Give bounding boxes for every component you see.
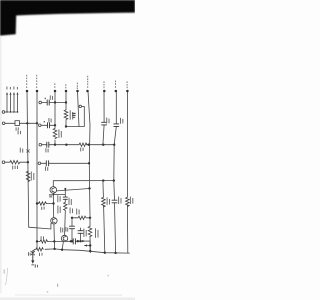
label terminal 7 bbox=[104, 81, 105, 83]
capacitor C3 plates (on V7) bbox=[102, 122, 107, 125]
junction node (90,217.8) bbox=[89, 217, 91, 219]
junction node (104.8,252.7) bbox=[104, 252, 106, 254]
left paper edge shadow bbox=[0, 36, 2, 293]
terminal pad 6 bbox=[86, 90, 89, 93]
wire bus line V7 bbox=[103, 91, 105, 253]
resistor R10 zigzag (on V6) bbox=[88, 226, 92, 236]
junction node (17.5,112) bbox=[17, 111, 18, 112]
junction node (66,102.5) bbox=[65, 101, 67, 103]
junction node (54.3,241.4) bbox=[53, 240, 55, 242]
wire rail D (C6 line y=163.3) bbox=[41, 162, 89, 164]
label terminal 9 bbox=[127, 81, 128, 83]
label R6 value bbox=[69, 198, 70, 205]
capacitor C8 drop line bbox=[80, 228, 82, 241]
transistor TR3 bbox=[61, 235, 67, 241]
junction node (72,217.8) bbox=[71, 217, 73, 219]
label block right of R1 bbox=[72, 113, 76, 114]
junction node (90.2,250.9) bbox=[89, 250, 91, 252]
terminal circle RV1 line bbox=[2, 161, 5, 164]
terminal pad 1 bbox=[26, 90, 29, 93]
wire bus line V5 bbox=[78, 91, 80, 127]
resistor R5 zigzag bbox=[38, 202, 46, 205]
capacitor C1 plates bbox=[47, 100, 49, 105]
terminal pad 2 bbox=[36, 90, 39, 93]
terminal circle fuse line bbox=[2, 122, 5, 125]
resistor R3 zigzag bbox=[79, 143, 87, 146]
junction node (66,126.5) bbox=[65, 125, 67, 127]
capacitor C4 plates (on V8) bbox=[114, 124, 119, 127]
connector pin arrowheads bbox=[6, 92, 19, 95]
wire TR3 emitter down to bus bbox=[62, 241, 63, 249]
speck lower center bbox=[47, 291, 49, 293]
label terminal 1 bbox=[26, 75, 27, 77]
bottom scan strip bbox=[0, 297, 135, 300]
resistor R6 zigzag bbox=[64, 199, 67, 210]
label C3 value bbox=[106, 118, 107, 124]
label RV1 value bbox=[12, 166, 13, 170]
label C7 value bbox=[70, 208, 71, 214]
wire TR1 collector rail y=180.6 bbox=[53, 181, 114, 187]
junction node (115.6,252.9) bbox=[114, 252, 116, 254]
label C6 value bbox=[45, 167, 46, 171]
junction node (113.8,180.6) bbox=[113, 179, 115, 181]
junction node (65.3,188.9) bbox=[64, 188, 66, 190]
label R3 value bbox=[80, 148, 81, 152]
junction node (14,112) bbox=[13, 111, 14, 112]
terminal circle C6 line bbox=[38, 162, 41, 165]
label terminal 6 bbox=[87, 76, 88, 78]
wire bus line V8 bbox=[114, 91, 117, 253]
wire TR2 emitter down bbox=[53, 224, 56, 249]
label R7 value bbox=[41, 236, 42, 240]
capacitor C11 plates on branch bbox=[63, 197, 67, 199]
junction node (66.4,144.7) bbox=[65, 144, 67, 146]
resistor R2 zigzag (on V1) bbox=[26, 171, 30, 181]
terminal pad 7 bbox=[103, 90, 106, 93]
connector CN1 pin 4 bbox=[17, 95, 19, 112]
capacitor C6 plates bbox=[46, 161, 48, 166]
rotated tiny label smudges bbox=[6, 75, 133, 268]
scanner black header bbox=[0, 0, 135, 36]
capacitor C5 plates bbox=[47, 142, 49, 147]
wire input line with fuse F1 bbox=[5, 122, 37, 124]
wire bus line V6 bbox=[88, 91, 90, 253]
label R4 value bbox=[58, 130, 59, 139]
label terminal 5 bbox=[77, 83, 78, 85]
capacitor C9 plates (on V8) bbox=[112, 200, 117, 203]
resistor R1 zigzag (on V4) bbox=[64, 110, 68, 120]
wire arrow stub at V6 bottom bbox=[85, 245, 91, 247]
junction node (27.3,123.3) bbox=[26, 122, 28, 124]
connector CN1 common bus wire bbox=[5, 111, 18, 113]
junction node (37,203.5) bbox=[36, 202, 38, 204]
terminal circle bus left bbox=[2, 111, 5, 114]
junction node (55,144.7) bbox=[54, 144, 56, 146]
resistor R11 zigzag (on V7) bbox=[102, 197, 106, 207]
resistor RV1 zigzag bbox=[10, 161, 20, 164]
earth bar bbox=[31, 263, 34, 266]
wire bus line V4 bbox=[65, 91, 67, 127]
junction node (77.8,241.2) bbox=[77, 240, 79, 242]
transistor TR2 bbox=[51, 218, 57, 224]
label TR2 type bbox=[57, 206, 58, 214]
wire TR1 base rail y=188.5 bbox=[56, 189, 89, 191]
junction node (88.7,144.7) bbox=[88, 144, 90, 146]
junction node (55,125.3) bbox=[54, 124, 56, 126]
speck center bottom bbox=[57, 284, 58, 287]
wire R9 rail y=217.8 bbox=[72, 217, 90, 219]
label terminal 8 bbox=[115, 81, 116, 83]
label R12 value bbox=[130, 197, 131, 204]
wire bus line V3 bbox=[54, 91, 56, 145]
capacitor C2 plates bbox=[48, 123, 50, 128]
label fuse F1 bbox=[16, 127, 17, 130]
junction node (72,241.3) bbox=[71, 240, 73, 242]
junction node (54.6,248.9) bbox=[53, 248, 55, 250]
junction node (10.5,112) bbox=[10, 111, 11, 112]
open terminal circle of stub bbox=[79, 105, 81, 107]
wire TR1 emitter down to TR2 bbox=[52, 193, 54, 217]
emitter arrowhead on rail bbox=[82, 240, 85, 242]
board terminal dots row y=91 bbox=[26, 90, 129, 93]
resistor R4 zigzag (on V3) bbox=[53, 128, 57, 138]
connector CN1 pin 2 bbox=[10, 95, 12, 112]
capacitor C10 plates bbox=[73, 239, 75, 244]
wire R7 rail y=241.4 bbox=[37, 240, 63, 242]
junction node (70.9,241.3) bbox=[70, 240, 72, 242]
label TR1 blob bbox=[49, 194, 53, 195]
label R11 value bbox=[107, 197, 108, 205]
label TR3 type bbox=[60, 227, 61, 232]
label near tick on V1 bbox=[20, 148, 21, 153]
wire rail B (C2 line y=125.3) bbox=[41, 124, 55, 126]
junction node (89,163.3) bbox=[88, 162, 90, 164]
label C5 value bbox=[45, 148, 46, 152]
label terminal 4 bbox=[65, 84, 66, 86]
label C4 value bbox=[120, 118, 121, 124]
label upper V1 bbox=[18, 130, 19, 134]
junction node (89.5,188.4) bbox=[88, 187, 90, 189]
junction node (90.2,245.5) bbox=[89, 244, 91, 246]
faint page-bottom artifacts bbox=[4, 268, 122, 295]
earth arrowhead bbox=[31, 260, 34, 263]
terminal circle C2 line bbox=[39, 124, 42, 127]
label TR1 type right bbox=[57, 195, 58, 202]
label C8 value bbox=[83, 229, 84, 237]
junction node (37,241.4) bbox=[36, 240, 38, 242]
label connector pins bbox=[6, 87, 7, 90]
terminal pad 3 bbox=[54, 90, 57, 93]
junction dots bbox=[6, 101, 117, 254]
wire X1 step to bus bbox=[33, 249, 36, 251]
open circle terminals bbox=[2, 101, 41, 164]
capacitor C7 drop line bbox=[71, 218, 73, 242]
resistor R9 zigzag bbox=[78, 216, 86, 219]
label R9 value bbox=[76, 209, 77, 215]
connector CN1 pin 1 bbox=[6, 95, 8, 112]
terminal pad 9 bbox=[126, 90, 128, 93]
wire R5 rail y=203.5 bbox=[37, 203, 54, 205]
junction node (53.4,194.5) bbox=[53, 194, 55, 196]
terminal circle C5 line bbox=[39, 143, 42, 146]
wire bus line V9 bbox=[126, 91, 128, 253]
junction node (103.3,144.7) bbox=[102, 144, 104, 146]
wire bus line V1 bbox=[27, 91, 29, 227]
resistor R8 zigzag bbox=[36, 248, 44, 251]
capacitor C7 plates bbox=[70, 226, 75, 229]
wire TR3 right rail y=241.4 with C10 bbox=[66, 241, 90, 251]
junction node (27.9,162.2) bbox=[27, 161, 29, 163]
label C9 value bbox=[118, 197, 119, 204]
label terminal 3 bbox=[54, 83, 55, 85]
arrowhead pointing left bbox=[84, 244, 87, 246]
label R2 value bbox=[31, 172, 32, 181]
tick on V1 at 151 bbox=[26, 150, 29, 153]
wire branch to R6 bbox=[53, 189, 65, 197]
tiny text bottom left bbox=[4, 269, 5, 273]
label R5 value bbox=[41, 207, 42, 210]
capacitor C8 plates bbox=[78, 231, 83, 234]
wire earth drop bbox=[32, 256, 34, 261]
terminal pad 8 bbox=[115, 90, 118, 93]
junction node (7,112) bbox=[6, 111, 7, 112]
faint paper crease line bbox=[15, 294, 122, 296]
transistor TR1 bbox=[50, 187, 57, 194]
junction node (62.1,249.7) bbox=[61, 249, 63, 251]
wire TR2 base line from V1 corner bbox=[29, 223, 52, 229]
junction node (80.5,241.2) bbox=[79, 240, 81, 242]
paper background bbox=[0, 0, 135, 300]
label C1 plus value bbox=[45, 98, 46, 99]
crystal mic X1 symbol bbox=[31, 251, 35, 256]
label below earth arrow bbox=[35, 264, 36, 267]
label C2 value bbox=[44, 121, 45, 122]
label R1 value bbox=[70, 110, 71, 120]
terminal pad 5 bbox=[76, 90, 79, 93]
resistor R12 zigzag (on V9) bbox=[126, 197, 130, 206]
terminal circle C1 line bbox=[39, 101, 42, 104]
wire rail C (C5 line y=144.7) bbox=[42, 144, 115, 146]
junction node (103.3,180.6) bbox=[102, 179, 104, 181]
label R8 value bbox=[39, 253, 40, 256]
wire bus line V2 bbox=[36, 91, 38, 249]
wire stub with terminal (rectangle loop to R1 bottom) bbox=[66, 106, 84, 126]
label R10 value bbox=[95, 228, 96, 238]
label mic X1 bbox=[28, 252, 29, 256]
ground bus wire bbox=[45, 249, 129, 253]
label terminal 2 bbox=[36, 75, 37, 77]
junction node (55,102.5) bbox=[54, 101, 56, 103]
junction node (53.5,203.5) bbox=[52, 202, 54, 204]
junction node (37,123.3) bbox=[36, 122, 38, 124]
wire rail A (C1 line y=102.5) bbox=[42, 102, 67, 104]
fold mark bottom left bbox=[6, 268, 8, 285]
wire R6 to TR3 collector bbox=[64, 211, 67, 236]
resistor R7 zigzag bbox=[40, 240, 48, 243]
junction node (114.2,144.7) bbox=[113, 144, 115, 146]
terminal pad 4 bbox=[65, 90, 68, 93]
connector CN1 pin 3 bbox=[13, 95, 15, 112]
fuse F1 body bbox=[15, 121, 20, 126]
wire RV1 input line y=162.2 bbox=[5, 161, 28, 163]
